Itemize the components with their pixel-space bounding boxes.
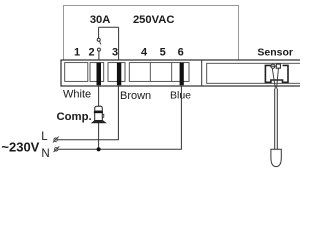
terminal strip outer body (61, 60, 302, 86)
terminal 3 wire bar (117, 63, 121, 86)
terminal slot 3 (108, 63, 125, 82)
sensor connector screw (271, 64, 276, 68)
L terminal plug symbol (53, 137, 59, 143)
white wire from terminal 2 to compressor and N line (98, 85, 100, 149)
svg-text:1: 1 (74, 47, 80, 59)
svg-text:N: N (41, 148, 49, 160)
svg-text:Comp.: Comp. (57, 111, 92, 123)
svg-text:6: 6 (178, 47, 184, 59)
terminal slot 1 (65, 63, 88, 82)
sensor probe stem (275, 89, 278, 150)
sensor connector tab (276, 64, 280, 68)
svg-text:Brown: Brown (120, 90, 151, 102)
sensor wires (272, 69, 278, 89)
blue wire from terminal 6 down to N line (58, 85, 181, 149)
svg-text:~230V: ~230V (1, 139, 39, 154)
svg-text:L: L (41, 131, 48, 143)
strip section divider (201, 60, 203, 86)
brown wire from terminal 3 down to L line (57, 85, 118, 140)
junction dot on N line (97, 147, 101, 151)
terminal 6 wire bar (180, 63, 184, 86)
svg-text:250VAC: 250VAC (133, 14, 174, 26)
terminal slots 4-6 group (129, 63, 189, 82)
svg-text:3: 3 (112, 47, 118, 59)
relay contact K1 (30A switch between terminals 2 and 3) (97, 27, 118, 62)
N terminal plug symbol (54, 146, 60, 152)
sensor probe bulb (271, 149, 281, 166)
sensor terminal slot (207, 63, 302, 83)
svg-text:4: 4 (141, 47, 148, 59)
compressor M1 (91, 106, 107, 123)
sensor connector body (265, 65, 288, 82)
svg-text:Sensor: Sensor (257, 47, 293, 59)
svg-text:30A: 30A (90, 14, 111, 26)
terminal 2 wire bar (97, 63, 102, 86)
svg-text:Blue: Blue (170, 89, 191, 101)
terminal slot 2 (90, 63, 104, 82)
controller box U1 (64, 6, 239, 61)
svg-text:White: White (63, 89, 91, 101)
svg-text:5: 5 (160, 47, 166, 59)
svg-text:2: 2 (88, 47, 94, 59)
